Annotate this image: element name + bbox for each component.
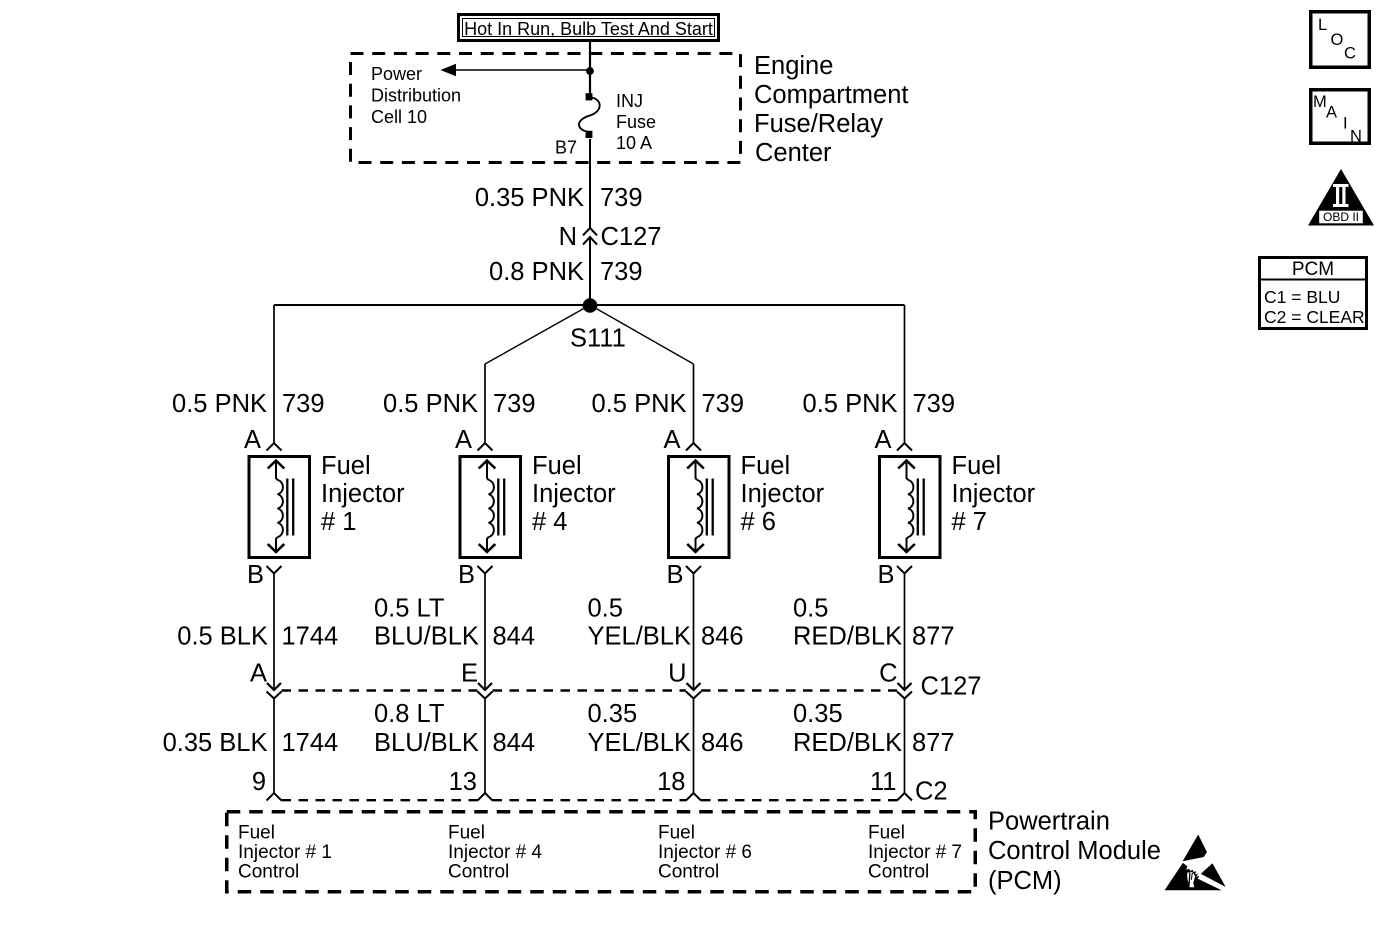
fuel injector #4 coil symbol: [227, 12, 1374, 895]
label Powertrain Control Module (PCM): [988, 808, 1161, 896]
label 0.8 PNK 739: [489, 258, 643, 286]
svg-text:O: O: [1331, 31, 1344, 49]
label 0.5 PNK 739 (branch 4): [383, 390, 536, 418]
svg-text:A: A: [250, 660, 267, 688]
label Fuel Injector #1: [321, 452, 405, 536]
svg-text:B7: B7: [555, 138, 577, 158]
svg-text:B: B: [247, 561, 264, 589]
wire: horizontal bus from S111: [274, 304, 905, 306]
connector at injector #1 pin A: [267, 443, 282, 451]
fuel injector #7 core bars: [917, 479, 919, 536]
arrow to Power Distribution: [441, 64, 591, 76]
wire: diagonal S111 to injector 4 branch: [485, 305, 590, 364]
connector at injector #4 pin B: [478, 566, 493, 574]
svg-text:Hot In Run, Bulb Test And Star: Hot In Run, Bulb Test And Start: [464, 19, 713, 39]
connector C127 arrowhead (branch 1): [267, 683, 281, 690]
svg-text:RED/BLK: RED/BLK: [793, 729, 902, 757]
svg-text:1744: 1744: [282, 623, 339, 651]
ESD sensitive device symbol: [1165, 835, 1226, 891]
svg-text:739: 739: [913, 390, 956, 418]
wire label 0.8 LT BLU/BLK 844: [374, 700, 535, 757]
wire label 0.35 RED/BLK 877: [793, 700, 955, 757]
connector C2 female half (branch 6): [686, 793, 701, 801]
LOC reference box: [1311, 12, 1370, 68]
svg-text:0.35: 0.35: [588, 700, 638, 728]
wire: C127 to PCM connector C2 (branch 7): [904, 699, 906, 794]
svg-text:# 4: # 4: [532, 508, 567, 536]
svg-text:0.5 LT: 0.5 LT: [374, 595, 444, 623]
svg-text:B: B: [877, 561, 894, 589]
svg-text:0.8 LT: 0.8 LT: [374, 700, 444, 728]
svg-text:Control: Control: [238, 862, 299, 883]
wire: from title box to fuse: [589, 42, 591, 94]
wire label 0.5 LT BLU/BLK 844: [374, 595, 535, 651]
connector C127 female half (branch 1): [267, 692, 282, 699]
svg-text:Center: Center: [755, 139, 832, 167]
svg-text:A: A: [244, 426, 261, 454]
junction dot at arrow tap: [586, 67, 594, 75]
svg-text:844: 844: [493, 623, 536, 651]
connector C127 dashed line: [282, 689, 898, 691]
label Fuel Injector #4: [532, 452, 616, 536]
wire: injector #7 to connector C127: [904, 574, 906, 690]
label INJ Fuse 10 A: [616, 91, 656, 153]
svg-text:0.8 PNK: 0.8 PNK: [489, 258, 584, 286]
fuel injector #1 core bars: [286, 479, 288, 536]
wire label 0.35 BLK 1744: [163, 729, 339, 757]
wire label 0.5 RED/BLK 877: [793, 595, 955, 651]
svg-text:YEL/BLK: YEL/BLK: [588, 729, 691, 757]
svg-text:(PCM): (PCM): [988, 867, 1062, 895]
svg-text:Cell 10: Cell 10: [371, 107, 427, 127]
svg-text:0.5 PNK: 0.5 PNK: [803, 390, 898, 418]
svg-text:11: 11: [870, 768, 896, 796]
svg-text:B: B: [666, 561, 683, 589]
svg-text:0.5: 0.5: [793, 595, 828, 623]
svg-text:BLU/BLK: BLU/BLK: [374, 729, 479, 757]
svg-text:0.35 BLK: 0.35 BLK: [163, 729, 268, 757]
svg-text:9: 9: [252, 768, 266, 796]
fuel injector #7 box: [880, 457, 941, 558]
connector C2 female half (branch 4): [478, 793, 493, 801]
wire: branch to fuel injector #6: [693, 364, 695, 443]
label Fuel Injector #1 Control (PCM pin): [238, 823, 332, 883]
svg-text:Injector: Injector: [532, 480, 616, 508]
svg-text:0.5 PNK: 0.5 PNK: [592, 390, 687, 418]
connector C2 female half (branch 7): [897, 793, 912, 801]
svg-text:0.35: 0.35: [793, 700, 843, 728]
wire: injector #4 to connector C127: [484, 574, 486, 690]
svg-text:M: M: [1313, 93, 1327, 111]
wire: branch to fuel injector #4: [484, 364, 486, 443]
svg-text:# 7: # 7: [952, 508, 987, 536]
svg-text:Fuel: Fuel: [741, 452, 791, 480]
wire: C127 to splice S111: [589, 238, 591, 306]
wire: branch to fuel injector #7: [904, 305, 906, 443]
connector at injector #7 pin B: [897, 566, 912, 574]
svg-text:C127: C127: [921, 673, 982, 701]
svg-text:N: N: [559, 223, 577, 251]
connector C127 arrowhead (branch 4): [478, 683, 492, 690]
svg-text:Injector: Injector: [321, 480, 405, 508]
svg-text:BLU/BLK: BLU/BLK: [374, 623, 479, 651]
svg-text:Fuel: Fuel: [448, 823, 485, 844]
svg-text:0.5 PNK: 0.5 PNK: [383, 390, 478, 418]
svg-text:Fuel: Fuel: [868, 823, 905, 844]
svg-text:877: 877: [912, 729, 955, 757]
svg-text:Control Module: Control Module: [988, 837, 1161, 865]
svg-text:Injector # 6: Injector # 6: [658, 842, 752, 863]
svg-text:739: 739: [600, 258, 643, 286]
svg-text:Injector # 4: Injector # 4: [448, 842, 542, 863]
svg-text:Distribution: Distribution: [371, 86, 461, 106]
svg-text:Powertrain: Powertrain: [988, 808, 1110, 836]
connector C127 terminal N (female half): [583, 228, 597, 235]
svg-text:Fuse/Relay: Fuse/Relay: [754, 110, 883, 138]
wire label 0.5 YEL/BLK 846: [588, 595, 744, 651]
svg-text:Fuel: Fuel: [658, 823, 695, 844]
fuel injector #4 core bars: [497, 479, 499, 536]
svg-text:C127: C127: [601, 223, 662, 251]
label: Power Distribution Cell 10: [371, 64, 461, 127]
svg-text:0.5: 0.5: [588, 595, 623, 623]
svg-text:739: 739: [702, 390, 745, 418]
label 0.5 PNK 739 (branch 7): [803, 390, 956, 418]
svg-text:YEL/BLK: YEL/BLK: [588, 623, 691, 651]
fuel injector #6 coil symbol: [227, 12, 1374, 895]
label Fuel Injector #6: [741, 452, 825, 536]
svg-text:I: I: [1343, 115, 1348, 133]
connector C127 arrowhead (branch 7): [898, 683, 912, 690]
wire: diagonal S111 to injector 6 branch: [590, 305, 694, 364]
svg-text:OBD II: OBD II: [1323, 210, 1359, 224]
fuel injector #7 coil symbol: [227, 12, 1374, 895]
svg-text:739: 739: [493, 390, 536, 418]
connector C127 female half (branch 7): [897, 692, 912, 699]
Engine Compartment Fuse/Relay Center dashed box: [351, 54, 741, 163]
label: Engine Compartment Fuse/Relay Center: [754, 52, 908, 167]
svg-text:0.35 PNK: 0.35 PNK: [475, 184, 584, 212]
svg-text:Control: Control: [448, 862, 509, 883]
fuse: INJ Fuse 10 A: [579, 93, 600, 138]
wire label 0.35 YEL/BLK 846: [588, 700, 744, 757]
svg-text:Fuel: Fuel: [321, 452, 371, 480]
wire: C127 to PCM connector C2 (branch 4): [484, 699, 486, 794]
svg-text:E: E: [461, 660, 478, 688]
connector at injector #1 pin B: [267, 566, 282, 574]
title box: Hot In Run, Bulb Test And Start: [459, 15, 719, 41]
label Fuel Injector #4 Control (PCM pin): [448, 823, 542, 883]
PCM connector color table: [1258, 258, 1368, 329]
svg-text:739: 739: [600, 184, 643, 212]
fuel injector #4 box: [460, 457, 521, 558]
svg-text:C1 = BLU: C1 = BLU: [1264, 287, 1340, 307]
label 0.5 PNK 739 (branch 6): [592, 390, 745, 418]
svg-text:A: A: [874, 426, 891, 454]
svg-text:Injector: Injector: [741, 480, 825, 508]
svg-text:Engine: Engine: [754, 52, 833, 80]
svg-text:C2: C2: [915, 778, 948, 806]
svg-text:Fuel: Fuel: [952, 452, 1002, 480]
svg-text:877: 877: [912, 623, 955, 651]
svg-text:# 1: # 1: [321, 508, 356, 536]
wire: injector #6 to connector C127: [693, 574, 695, 690]
svg-text:Compartment: Compartment: [754, 81, 908, 109]
svg-text:Fuel: Fuel: [532, 452, 582, 480]
svg-text:PCM: PCM: [1292, 259, 1334, 280]
svg-text:B: B: [458, 561, 475, 589]
svg-text:Injector # 7: Injector # 7: [868, 842, 962, 863]
svg-text:13: 13: [449, 768, 477, 796]
svg-text:RED/BLK: RED/BLK: [793, 623, 902, 651]
splice S111 junction dot: [583, 298, 598, 313]
svg-text:739: 739: [282, 390, 325, 418]
OBD II symbol: [1308, 169, 1374, 226]
svg-text:L: L: [1318, 16, 1327, 34]
svg-text:846: 846: [701, 623, 744, 651]
label 0.5 PNK 739 (branch 1): [172, 390, 325, 418]
wire: branch to fuel injector #1: [273, 305, 275, 443]
svg-text:Power: Power: [371, 64, 422, 84]
wire: fuse to connector C127 N: [589, 139, 591, 228]
connector at injector #6 pin B: [686, 566, 701, 574]
svg-text:S111: S111: [570, 325, 626, 353]
fuel injector #6 core bars: [706, 479, 708, 536]
wire: C127 to PCM connector C2 (branch 6): [693, 699, 695, 794]
connector C127 female half (branch 4): [478, 692, 493, 699]
wire: injector #1 to connector C127: [273, 574, 275, 690]
svg-text:N: N: [1350, 128, 1362, 146]
svg-text:C: C: [879, 660, 897, 688]
wire label 0.5 BLK 1744: [177, 623, 338, 651]
svg-text:0.5 PNK: 0.5 PNK: [172, 390, 267, 418]
svg-text:1744: 1744: [282, 729, 339, 757]
svg-text:0.5 BLK: 0.5 BLK: [177, 623, 268, 651]
label Fuel Injector #7 Control (PCM pin): [868, 823, 962, 883]
svg-text:A: A: [455, 426, 472, 454]
connector at injector #7 pin A: [897, 443, 912, 451]
MAIN reference box: [1311, 90, 1370, 146]
svg-text:# 6: # 6: [741, 508, 776, 536]
connector C127 arrowhead (branch 6): [687, 683, 701, 690]
svg-text:Fuse: Fuse: [616, 112, 656, 132]
label Fuel Injector #7: [952, 452, 1036, 536]
svg-text:18: 18: [657, 768, 685, 796]
svg-text:C: C: [1344, 45, 1356, 63]
svg-text:Injector: Injector: [952, 480, 1036, 508]
svg-text:10 A: 10 A: [616, 133, 652, 153]
connector C2 dashed line: [282, 799, 898, 801]
svg-text:Fuel: Fuel: [238, 823, 275, 844]
svg-text:Control: Control: [868, 862, 929, 883]
svg-text:844: 844: [493, 729, 536, 757]
connector C2 female half (branch 1): [267, 793, 282, 801]
Powertrain Control Module dashed box: [227, 812, 976, 892]
fuel injector #1 box: [249, 457, 310, 558]
label Fuel Injector #6 Control (PCM pin): [658, 823, 752, 883]
connector C127 terminal N (male half): [583, 237, 597, 245]
svg-text:846: 846: [701, 729, 744, 757]
svg-text:A: A: [1326, 104, 1337, 122]
connector C127 female half (branch 6): [686, 692, 701, 699]
svg-text:Control: Control: [658, 862, 719, 883]
svg-text:A: A: [663, 426, 680, 454]
connector at injector #4 pin A: [478, 443, 493, 451]
svg-text:U: U: [668, 660, 686, 688]
connector at injector #6 pin A: [686, 443, 701, 451]
svg-text:Injector # 1: Injector # 1: [238, 842, 332, 863]
svg-text:C2 = CLEAR: C2 = CLEAR: [1264, 307, 1365, 327]
svg-text:INJ: INJ: [616, 91, 643, 111]
label 0.35 PNK 739: [475, 184, 643, 212]
fuel injector #6 box: [669, 457, 730, 558]
wire: C127 to PCM connector C2 (branch 1): [273, 699, 275, 794]
